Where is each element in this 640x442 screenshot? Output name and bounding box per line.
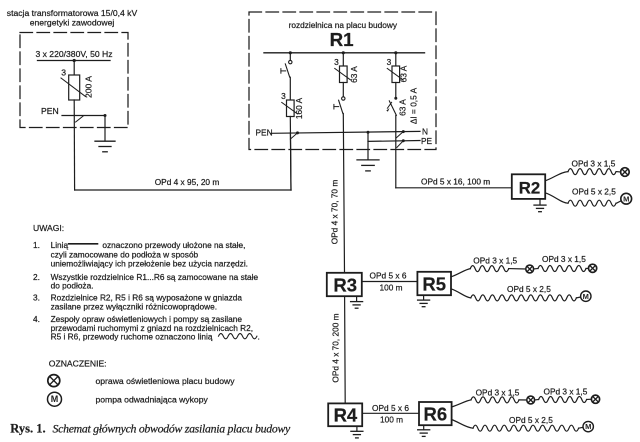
svg-text:OPd 5 x 2,5: OPd 5 x 2,5 [509,415,553,425]
svg-text:R4: R4 [334,405,358,426]
svg-text:OPd 3 x 1,5: OPd 3 x 1,5 [542,254,586,264]
svg-text:M: M [51,394,59,404]
svg-text:PEN: PEN [256,128,273,138]
svg-text:M: M [585,422,591,431]
svg-text:do podłoża.: do podłoża. [51,281,94,291]
svg-text:R5: R5 [422,274,446,295]
svg-text:OPd 5 x 6: OPd 5 x 6 [370,271,407,281]
svg-text:uniemożliwiający ich przełożen: uniemożliwiający ich przełożenie bez uży… [51,259,248,269]
svg-text:R5 i R6, przewody ruchome ozna: R5 i R6, przewody ruchome oznaczono lini… [51,332,213,342]
svg-text:OPd 4 x 70, 70 m: OPd 4 x 70, 70 m [330,180,340,245]
svg-text:OPd 5 x 2,5: OPd 5 x 2,5 [572,187,616,197]
svg-text:1.: 1. [33,240,40,250]
svg-text:oprawa oświetleniowa placu bud: oprawa oświetleniowa placu budowy [96,376,236,386]
svg-text:Rys. 1.: Rys. 1. [10,422,45,436]
svg-text:OPd 4 x 95, 20 m: OPd 4 x 95, 20 m [155,177,220,187]
svg-text:2.: 2. [33,272,40,282]
svg-text:OPd 5 x 16, 100 m: OPd 5 x 16, 100 m [421,176,490,186]
svg-text:3: 3 [281,91,286,101]
svg-text:OZNACZENIE:: OZNACZENIE: [49,358,107,368]
svg-text:OPd 3 x 1,5: OPd 3 x 1,5 [476,387,520,397]
svg-text:ΔI = 0,5 A: ΔI = 0,5 A [409,87,419,124]
svg-text:stacja transformatorowa 15/0,4: stacja transformatorowa 15/0,4 kV [7,8,138,18]
svg-text:R6: R6 [423,404,447,425]
svg-text:energetyki zawodowej: energetyki zawodowej [30,18,115,28]
svg-text:M: M [583,292,589,301]
svg-text:zasilane przez wyłączniki różn: zasilane przez wyłączniki różnicowoprądo… [51,301,217,311]
svg-text:.: . [258,332,260,342]
svg-text:100 m: 100 m [379,282,402,292]
svg-text:M: M [623,194,629,203]
svg-text:OPd 4 x 70, 200 m: OPd 4 x 70, 200 m [330,313,340,382]
svg-text:160 A: 160 A [294,97,304,119]
svg-text:pompa odwadniająca wykopy: pompa odwadniająca wykopy [96,394,209,404]
svg-text:R1: R1 [330,29,354,50]
svg-text:OPd 3 x 1,5: OPd 3 x 1,5 [544,386,588,396]
svg-text:OPd 5 x 2,5: OPd 5 x 2,5 [507,284,551,294]
svg-text:200 A: 200 A [84,76,94,98]
svg-text:63 A: 63 A [399,65,409,82]
svg-text:R2: R2 [519,179,540,198]
svg-text:PEN: PEN [41,106,59,116]
svg-text:OPd 5 x 6: OPd 5 x 6 [372,403,409,413]
svg-text:3: 3 [334,57,339,67]
svg-text:4.: 4. [33,314,40,324]
svg-text:R3: R3 [333,274,357,295]
svg-text:3: 3 [61,68,66,78]
svg-text:3 x 220/380V, 50 Hz: 3 x 220/380V, 50 Hz [35,49,112,59]
svg-text:3: 3 [387,57,392,67]
svg-text:100 m: 100 m [380,414,403,424]
svg-text:UWAGI:: UWAGI: [33,223,64,233]
svg-text:OPd 3 x 1,5: OPd 3 x 1,5 [473,256,517,266]
svg-text:63 A: 63 A [349,66,359,83]
svg-text:PE: PE [421,136,433,146]
svg-text:OPd 3 x 1,5: OPd 3 x 1,5 [572,159,616,169]
svg-text:3.: 3. [33,293,40,303]
svg-text:63 A: 63 A [398,99,408,116]
svg-text:Schemat głównych obwodów zasil: Schemat głównych obwodów zasilania placu… [53,422,292,436]
